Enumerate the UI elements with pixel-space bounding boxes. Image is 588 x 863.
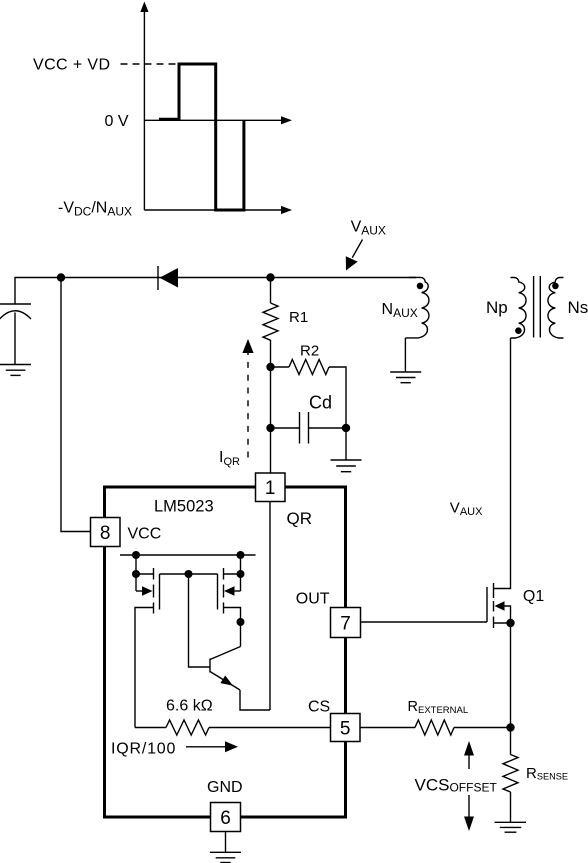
junction node Cd left: [266, 424, 274, 432]
resistor REXTERNAL: [415, 720, 454, 735]
wire pin 5 to REXTERNAL: [360, 727, 415, 729]
wire CS node to RSENSE: [510, 728, 512, 755]
wire M1 drain down: [135, 608, 154, 728]
wire gate to Q3 base: [189, 574, 210, 667]
svg-text:CS: CS: [308, 699, 330, 716]
Ns phasing dot: [552, 283, 559, 290]
svg-text:8: 8: [100, 523, 111, 544]
transistor Q3 (NPN): [210, 647, 270, 711]
junction node at VCC branch: [57, 273, 65, 281]
transformer core: [534, 276, 541, 338]
junction rail left: [132, 551, 140, 559]
svg-text:IQR/100: IQR/100: [111, 741, 176, 758]
wire top rail y=277.5: [15, 278, 416, 305]
IQR dashed current arrow: [242, 339, 253, 458]
svg-text:R2: R2: [300, 343, 319, 360]
wire QR pin internal: [269, 502, 271, 711]
wire Cd right branch down: [345, 412, 347, 460]
svg-text:VCC + VD: VCC + VD: [33, 57, 110, 74]
waveform vertical axis: [140, 2, 148, 211]
inductor NAUX: [405, 277, 429, 338]
wire R1 top lead: [270, 278, 272, 304]
VCSOFFSET down arrow: [464, 795, 474, 831]
IQR/100 arrow: [186, 741, 238, 752]
wire REXTERNAL to CS node: [454, 727, 511, 729]
svg-text:GND: GND: [207, 779, 243, 796]
resistor R2: [289, 360, 329, 375]
VCSOFFSET up arrow: [464, 741, 474, 769]
svg-text:7: 7: [340, 614, 351, 635]
capacitor Cd: [300, 412, 309, 444]
wire Cd right lead: [309, 427, 347, 429]
wire R2 right lead down: [329, 367, 346, 412]
ground (NAUX): [390, 372, 421, 383]
wire Q1 source down: [510, 623, 512, 728]
wire Np bottom to Q1 drain: [494, 338, 511, 589]
ground (Cd): [331, 460, 362, 472]
junction Q1 source: [506, 619, 514, 627]
svg-text:OUT: OUT: [296, 591, 330, 608]
wire NAUX bottom to ground: [404, 338, 406, 372]
transformer T1 secondary Ns: [548, 278, 564, 339]
ground (pin 6): [210, 852, 241, 862]
waveform bottom horizontal axis: [144, 206, 292, 214]
NAUX phasing dot: [417, 283, 424, 290]
svg-text:LM5023: LM5023: [154, 498, 214, 516]
junction node R2 tap: [266, 363, 274, 371]
wire VCC branch down to pin 8: [61, 278, 91, 532]
pin 6 box GND: [211, 803, 241, 832]
transistor M1 (left mirror PMOS): [132, 555, 160, 614]
svg-text:0 V: 0 V: [105, 113, 129, 130]
junction rail right: [237, 551, 245, 559]
junction gate center: [185, 570, 193, 578]
pin 5 box CS: [331, 714, 361, 742]
ground (VCC cap): [0, 365, 31, 376]
capacitor C1 (VCC bulk): [0, 304, 31, 365]
pin 1 box QR: [256, 473, 286, 502]
svg-text:Q1: Q1: [523, 588, 544, 605]
wire R2 left lead: [271, 366, 290, 368]
wire R1 bottom lead: [270, 340, 272, 367]
svg-text:5: 5: [340, 719, 351, 740]
pin 8 box VCC: [91, 518, 121, 547]
diode D1: [158, 266, 178, 290]
wire pin 7 to Q1 gate: [361, 621, 488, 623]
internal VCC rail: [120, 554, 256, 556]
resistor R1: [263, 303, 278, 340]
Np phasing dot: [515, 327, 522, 334]
wire QR node to pin 1: [270, 428, 272, 473]
transistor Q1 (NMOS): [487, 583, 511, 628]
svg-text:1: 1: [265, 478, 276, 499]
svg-text:Cd: Cd: [309, 393, 332, 413]
junction M2 drain: [237, 618, 245, 626]
IC U1 LM5023 body: [105, 487, 346, 817]
resistor RSENSE: [503, 755, 518, 792]
svg-text:QR: QR: [287, 509, 313, 528]
junction node Cd right: [342, 424, 350, 432]
wire RSENSE to ground: [510, 792, 512, 822]
pin 7 box OUT: [331, 608, 361, 638]
waveform dashed level line: [121, 63, 178, 65]
wire pin 6 to ground: [225, 832, 227, 853]
svg-text:Np: Np: [486, 298, 508, 317]
svg-text:6.6 kΩ: 6.6 kΩ: [166, 698, 213, 715]
junction CS node: [506, 723, 514, 731]
transformer T1 primary Np: [511, 278, 527, 339]
waveform trace: [159, 64, 244, 210]
junction node at R1 top: [266, 273, 274, 281]
ground (RSENSE): [495, 822, 527, 832]
wire M2 drain down: [224, 608, 241, 647]
waveform 0V horizontal axis: [144, 116, 292, 124]
wire gate interconnect: [160, 573, 218, 575]
transistor M2 (right mirror PMOS): [218, 555, 245, 614]
resistor 6.6k: [135, 720, 331, 735]
wire R1 bottom to Cd node: [270, 367, 272, 428]
VAUX pointer arrow: [346, 240, 363, 271]
wire Cd left lead: [271, 427, 300, 429]
svg-text:6: 6: [220, 808, 231, 829]
svg-text:VCC: VCC: [128, 526, 162, 543]
svg-text:R1: R1: [289, 309, 308, 326]
svg-text:Ns: Ns: [568, 298, 588, 317]
